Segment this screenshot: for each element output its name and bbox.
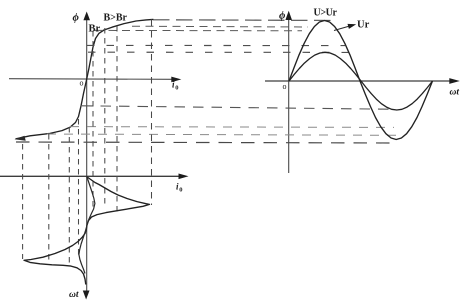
dashed level line y=26.4 (132, 25, 308, 28)
vertical construction dashed line x=104.8 (104, 28, 106, 208)
dashed level line Br (y=30.5) (95, 29, 302, 31)
bottom wt axis arrowhead down (83, 291, 90, 300)
dashed level line -phi-max U>Ur (y=142.5) (16, 142, 396, 143)
right phi axis arrowhead up (285, 11, 292, 20)
vertical construction dashed line x=48.8 (48, 134, 50, 264)
svg-text:0: 0 (179, 187, 182, 194)
magnetizing current wave (large) (24, 177, 150, 285)
svg-text:Ur: Ur (357, 20, 370, 31)
top-left i0 axis arrowhead (171, 77, 181, 83)
vertical construction dashed line x=69.3 (68, 127, 70, 267)
bottom i0 horizontal axis (0, 175, 180, 177)
svg-text:Br: Br (89, 24, 101, 35)
left phi axis arrowhead up (83, 12, 90, 21)
top-left i0 horizontal axis (9, 78, 173, 81)
svg-text:ϕ: ϕ (279, 10, 286, 22)
left phi/wt vertical axis (86, 14, 88, 293)
svg-text:o: o (80, 79, 84, 88)
dashed level line -phi-max Ur (y=107.5) (82, 106, 389, 109)
svg-text:ωt: ωt (450, 88, 460, 98)
vertical construction dashed line x=93 (92, 31, 94, 209)
Ur leader arrow (334, 26, 351, 31)
dashed level line y=134.8 (47, 134, 397, 135)
dashed level line y=45.4 (87, 44, 345, 46)
dashed level line y=127 (70, 126, 394, 129)
dashed level line phi-max U>Ur (y=20) (153, 19, 331, 22)
svg-text:o: o (283, 82, 287, 91)
bottom i0 axis arrowhead (179, 174, 189, 180)
vertical construction dashed line x=117 (116, 26, 118, 214)
vertical construction dashed line x=78.5 (78, 119, 80, 257)
svg-text:0: 0 (175, 85, 178, 92)
flux sine U>Ur (large) (289, 21, 433, 140)
vertical construction dashed line x=151 (151, 20, 153, 206)
svg-text:ωt: ωt (69, 290, 79, 300)
flux sine Ur (small) (289, 52, 433, 110)
svg-text:ϕ: ϕ (73, 12, 80, 24)
right wt axis arrowhead (449, 78, 460, 84)
svg-text:U>Ur: U>Ur (314, 8, 338, 19)
magnetization curve (16, 19, 153, 138)
dashed level line phi-max Ur (y=52.2) (88, 51, 353, 53)
svg-text:B>Br: B>Br (104, 13, 128, 24)
right wt horizontal axis (265, 80, 451, 82)
vertical construction dashed line x=22.6 (22, 144, 24, 259)
magnetizing current wave (small) (79, 177, 95, 274)
magnetization curve left-end arrowhead (15, 136, 26, 141)
right phi vertical axis (288, 14, 290, 173)
